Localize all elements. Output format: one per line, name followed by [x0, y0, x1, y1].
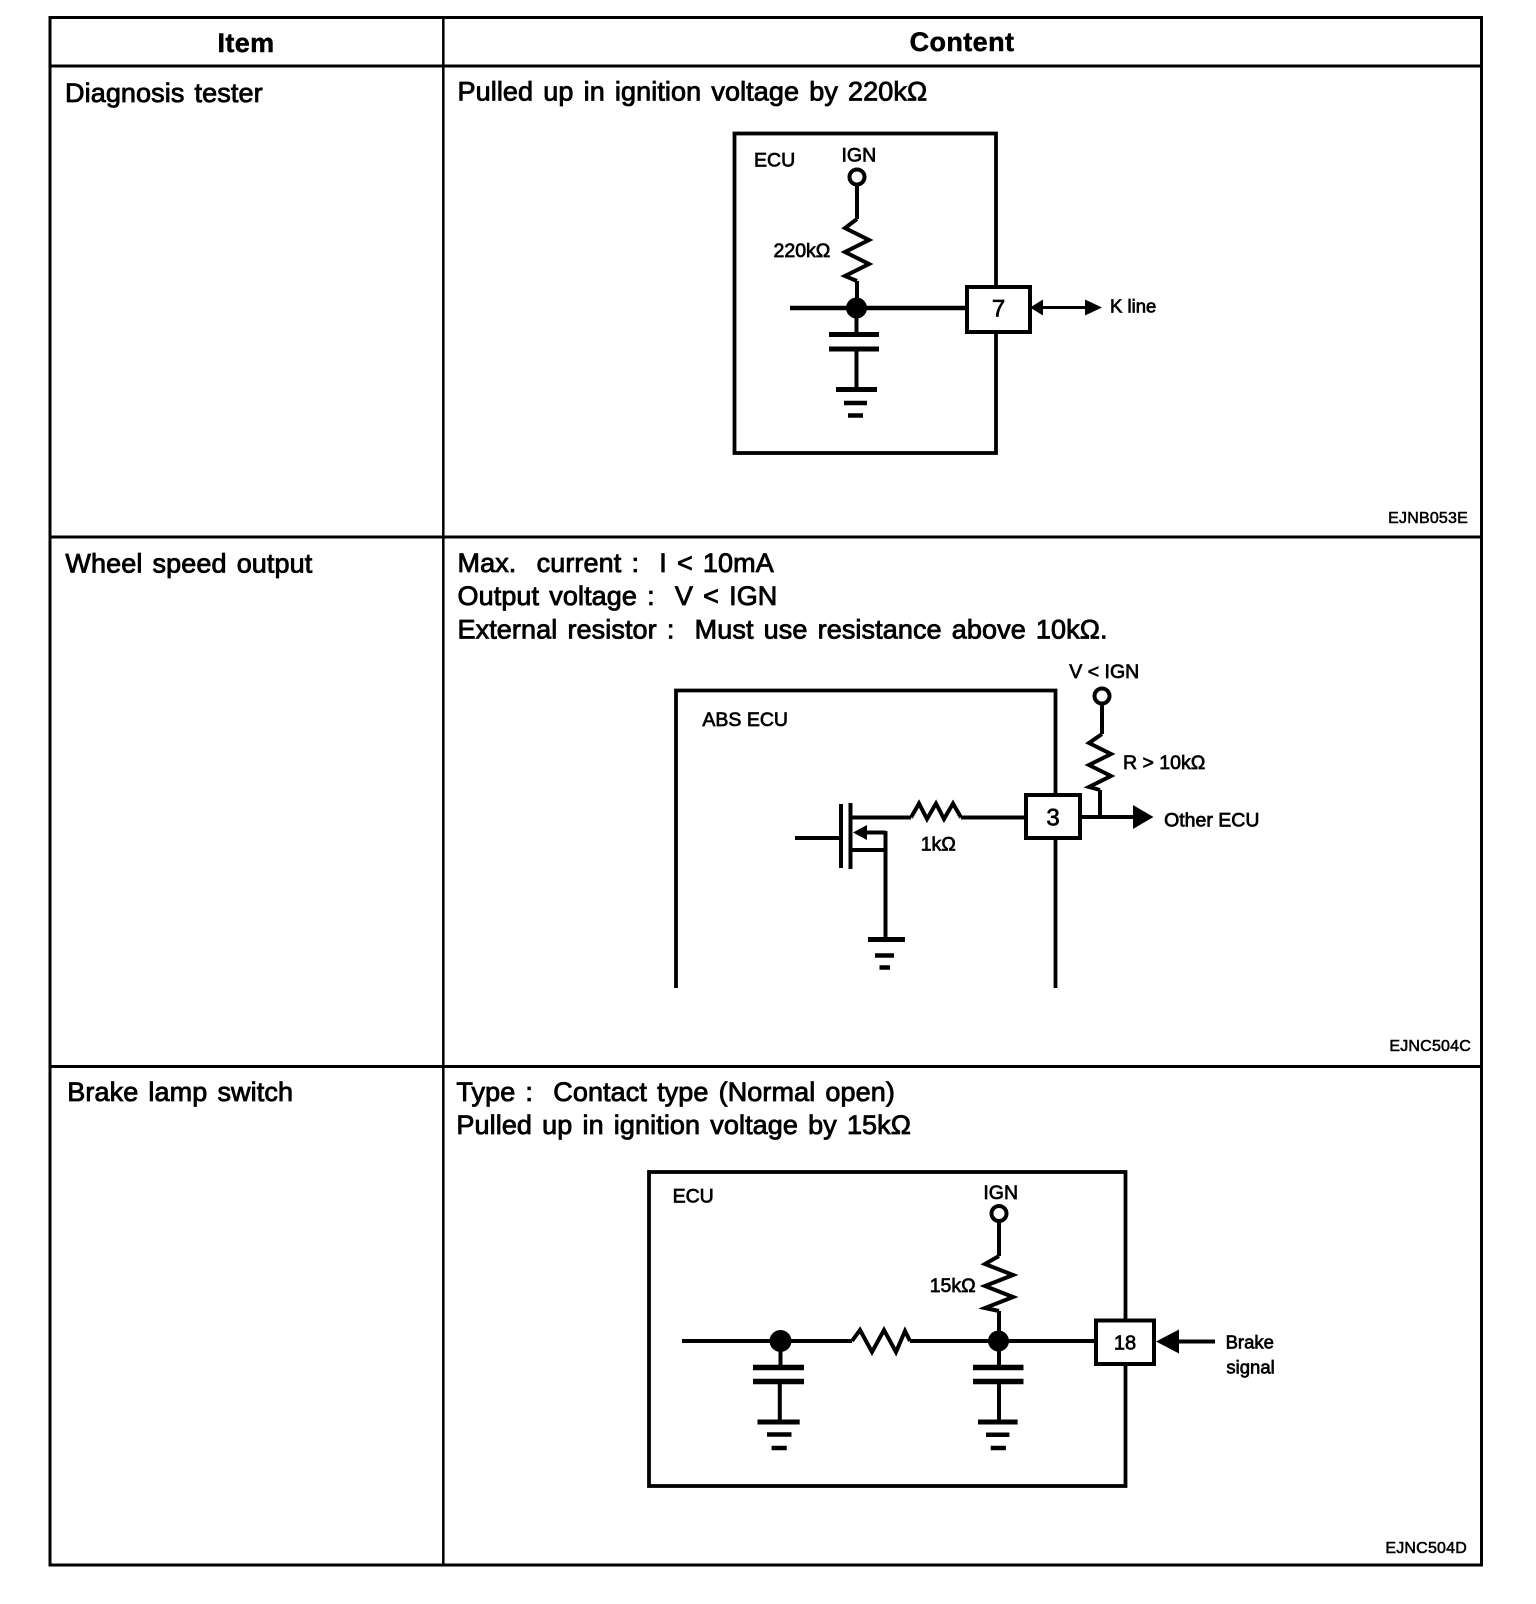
svg-text:ABS ECU: ABS ECU: [702, 709, 788, 731]
resistor 1k zigzag: [911, 804, 961, 820]
IGN terminal circle (circuit 1): [850, 170, 865, 185]
MOSFET Q1 body arrowhead: [853, 825, 867, 840]
ECU box (circuit 1): [735, 134, 997, 454]
capacitor 1 plate bottom: [753, 1379, 804, 1385]
svg-text:ECU: ECU: [754, 150, 795, 172]
wire capacitor to ground (circuit 1): [855, 349, 859, 390]
wire capacitor 2 to ground: [997, 1382, 1001, 1423]
capacitor 2 plate bottom: [973, 1379, 1024, 1385]
wire resistor 1k to pin 3: [961, 816, 1026, 820]
capacitor plate bottom (circuit 1): [829, 347, 879, 352]
ground 1 bar 2 (circuit 3): [767, 1432, 792, 1437]
svg-text:Brake lamp switch: Brake lamp switch: [67, 1077, 293, 1107]
ground 1 bar 3 (circuit 3): [772, 1446, 787, 1451]
ground bar 1 (circuit 1): [836, 387, 877, 392]
svg-text:Other ECU: Other ECU: [1164, 810, 1259, 832]
wire resistor R&gt;10k to output line: [1098, 790, 1102, 818]
svg-text:3: 3: [1046, 805, 1059, 832]
svg-text:Item: Item: [217, 28, 274, 58]
ground 2 bar 2 (circuit 3): [986, 1433, 1009, 1438]
node junction dot (circuit 1): [846, 298, 867, 319]
resistor R&gt;10k zigzag: [1089, 734, 1111, 790]
svg-text:EJNB053E: EJNB053E: [1388, 510, 1468, 527]
Brake signal arrow shaft: [1177, 1340, 1215, 1344]
svg-text:Content: Content: [910, 27, 1015, 57]
MOSFET Q1 body wire: [865, 831, 886, 835]
ground 2 bar 3 (circuit 3): [991, 1446, 1006, 1451]
wire main line left segment: [682, 1339, 852, 1343]
V &lt; IGN terminal circle: [1095, 689, 1110, 704]
ECU box (circuit 3): [649, 1172, 1126, 1486]
wire main line right segment to pin 18: [910, 1339, 1096, 1343]
IGN terminal circle (circuit 3): [992, 1206, 1007, 1221]
table row divider 1: [50, 536, 1482, 539]
svg-text:Brake: Brake: [1226, 1331, 1274, 1352]
pin 3 connector box: [1026, 795, 1080, 838]
wire resistor 15k to node 2: [997, 1311, 1001, 1341]
pin 18 connector box: [1096, 1321, 1154, 1365]
table row divider 2: [50, 1065, 1482, 1068]
svg-text:EJNC504C: EJNC504C: [1389, 1038, 1471, 1055]
wire capacitor 1 to ground: [778, 1382, 782, 1423]
ground bar 3 (circuit 2): [880, 965, 891, 970]
capacitor 2 stub wire: [997, 1341, 1001, 1368]
node junction dot 1 (circuit 3): [770, 1330, 792, 1352]
svg-text:1kΩ: 1kΩ: [921, 834, 956, 856]
node junction dot 2 (circuit 3): [988, 1331, 1009, 1352]
svg-text:Output voltage : V < IGN: Output voltage : V < IGN: [458, 581, 778, 611]
capacitor 1 plate top: [753, 1365, 804, 1371]
Brake signal arrowhead: [1156, 1330, 1179, 1354]
wire IGN terminal to resistor 15k: [997, 1221, 1001, 1256]
svg-text:Pulled up in ignition voltage: Pulled up in ignition voltage by 220kΩ: [458, 77, 928, 107]
svg-text:Pulled up in ignition voltage: Pulled up in ignition voltage by 15kΩ: [456, 1110, 911, 1140]
svg-text:18: 18: [1114, 1333, 1136, 1355]
wire terminal to resistor R&gt;10k: [1100, 704, 1104, 735]
svg-text:7: 7: [992, 296, 1005, 323]
table column divider: [442, 18, 445, 1566]
svg-text:15kΩ: 15kΩ: [930, 1275, 976, 1297]
resistor 220k zigzag: [845, 219, 869, 281]
MOSFET Q1 drain wire to resistor 1k: [851, 816, 912, 820]
svg-text:IGN: IGN: [842, 145, 877, 167]
capacitor 2 plate top: [973, 1365, 1024, 1371]
ground bar 2 (circuit 1): [844, 401, 867, 406]
wire IGN terminal to resistor 220k: [855, 185, 859, 220]
MOSFET Q1 channel bar: [849, 803, 853, 869]
svg-text:V < IGN: V < IGN: [1069, 661, 1139, 683]
wire resistor 220k to node: [855, 281, 859, 308]
ABS ECU box (open bottom): [676, 691, 1056, 989]
svg-text:K line: K line: [1110, 296, 1156, 317]
series resistor zigzag (circuit 3): [852, 1330, 910, 1352]
K line right arrowhead: [1085, 300, 1102, 316]
svg-text:Max. current : I < 10mA: Max. current : I < 10mA: [458, 548, 774, 578]
Other ECU arrowhead: [1133, 805, 1154, 829]
capacitor plate top (circuit 1): [829, 332, 879, 337]
capacitor 1 stub wire: [779, 1341, 783, 1368]
ground bar 1 (circuit 2): [868, 937, 905, 942]
svg-text:ECU: ECU: [673, 1185, 714, 1207]
svg-text:IGN: IGN: [983, 1182, 1018, 1204]
svg-text:EJNC504D: EJNC504D: [1385, 1540, 1467, 1557]
K line left arrowhead: [1030, 300, 1043, 316]
pin 7 connector box: [967, 287, 1030, 332]
svg-text:Type : Contact type (Normal o: Type : Contact type (Normal open): [456, 1077, 895, 1107]
wire source down to ground (circuit 2): [884, 831, 888, 940]
svg-text:Wheel speed output: Wheel speed output: [65, 549, 312, 579]
MOSFET Q1 gate lead wire: [795, 836, 839, 840]
MOSFET Q1 source wire: [851, 848, 886, 852]
svg-text:R > 10kΩ: R > 10kΩ: [1123, 752, 1205, 774]
svg-text:signal: signal: [1226, 1356, 1274, 1377]
resistor 15k zigzag: [985, 1256, 1013, 1311]
K line arrow shaft: [1041, 306, 1086, 309]
capacitor stub wire (circuit 1): [855, 308, 859, 335]
wire pin 3 to Other ECU arrow: [1080, 815, 1135, 819]
table header divider: [50, 65, 1482, 68]
MOSFET Q1 gate bar: [839, 804, 843, 868]
ground bar 3 (circuit 1): [848, 413, 863, 418]
wire horizontal to pin 7: [790, 306, 967, 311]
svg-text:External resistor : Must use: External resistor : Must use resistance …: [458, 614, 1108, 644]
svg-text:Diagnosis tester: Diagnosis tester: [65, 78, 263, 108]
ground 1 bar 1 (circuit 3): [758, 1420, 800, 1425]
svg-text:220kΩ: 220kΩ: [774, 240, 831, 262]
ground 2 bar 1 (circuit 3): [978, 1420, 1018, 1425]
ground bar 2 (circuit 2): [875, 953, 894, 958]
